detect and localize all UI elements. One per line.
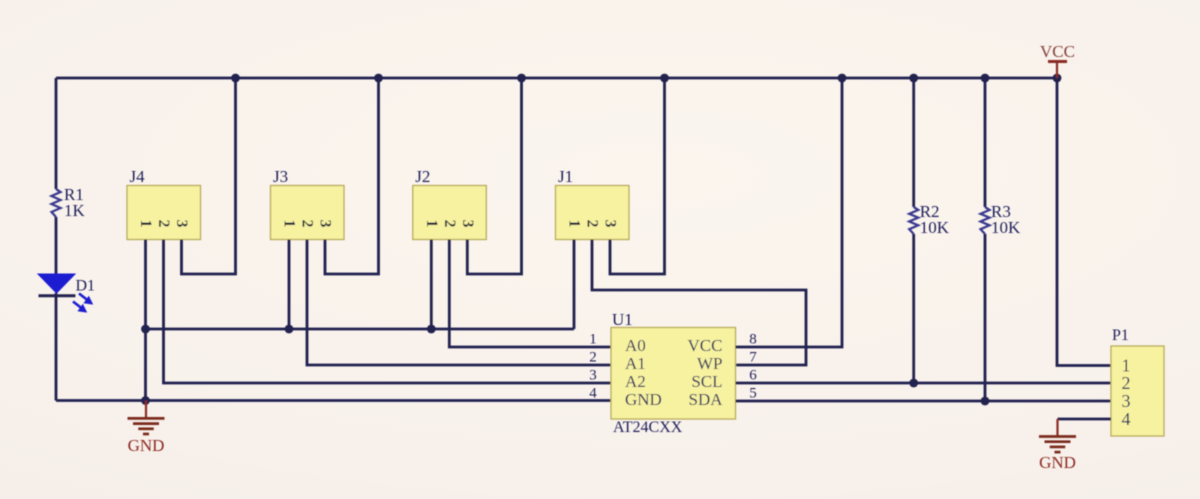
svg-text:WP: WP [697,354,723,373]
svg-text:3: 3 [589,368,597,384]
svg-text:2: 2 [589,350,597,366]
svg-text:A2: A2 [625,372,646,391]
svg-text:D1: D1 [76,278,96,295]
svg-text:1: 1 [566,220,583,228]
svg-text:10K: 10K [991,218,1021,237]
svg-text:A1: A1 [625,354,646,373]
svg-text:3: 3 [602,220,619,228]
svg-text:3: 3 [173,220,190,228]
svg-text:SDA: SDA [688,390,723,409]
svg-text:2: 2 [1122,373,1131,393]
svg-text:J3: J3 [273,167,288,186]
svg-text:3: 3 [317,220,334,228]
svg-text:AT24CXX: AT24CXX [613,419,683,436]
svg-text:J2: J2 [415,167,430,186]
svg-text:1: 1 [137,220,154,228]
svg-text:J4: J4 [130,167,146,186]
svg-text:2: 2 [155,220,172,228]
svg-text:1: 1 [423,220,440,228]
svg-text:SCL: SCL [691,372,722,391]
svg-text:J1: J1 [558,167,573,186]
svg-text:10K: 10K [920,218,950,237]
svg-text:1: 1 [281,220,298,228]
svg-text:GND: GND [625,390,662,409]
svg-text:1K: 1K [64,201,86,220]
svg-text:2: 2 [441,220,458,228]
svg-text:VCC: VCC [688,336,723,355]
svg-text:8: 8 [749,332,757,348]
svg-text:GND: GND [1039,453,1076,472]
svg-text:4: 4 [1122,409,1131,429]
svg-text:3: 3 [459,220,476,228]
svg-text:6: 6 [749,368,757,384]
svg-text:VCC: VCC [1040,42,1075,61]
svg-text:A0: A0 [625,336,646,355]
svg-text:4: 4 [589,386,597,402]
svg-text:5: 5 [749,386,757,402]
svg-text:P1: P1 [1112,327,1129,344]
svg-text:7: 7 [749,350,757,366]
svg-text:1: 1 [589,332,597,348]
svg-text:U1: U1 [612,310,633,329]
svg-text:3: 3 [1122,391,1131,411]
svg-text:2: 2 [584,220,601,228]
svg-text:GND: GND [128,436,165,455]
svg-text:2: 2 [299,220,316,228]
